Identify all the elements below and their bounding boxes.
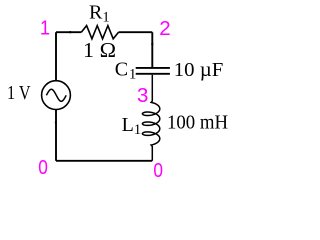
source V1 sine [46, 89, 66, 101]
junction dot on left wire [55, 122, 57, 124]
svg-text:2: 2 [159, 17, 170, 40]
svg-text:1 Ω: 1 Ω [83, 38, 116, 62]
svg-text:10 µF: 10 µF [174, 59, 224, 81]
svg-text:1: 1 [40, 16, 50, 39]
junction dot on right wire [151, 43, 153, 45]
wire left vertical lower [55, 110, 57, 161]
source V1 circle [42, 81, 71, 110]
svg-text:1 V: 1 V [7, 82, 31, 104]
svg-text:0: 0 [38, 156, 48, 179]
capacitor C1 [136, 68, 170, 74]
resistor R1 [81, 26, 118, 39]
junction dot on top wire [69, 31, 71, 33]
wire top left lead [56, 31, 81, 33]
wire bottom [56, 160, 152, 162]
svg-text:100 mH: 100 mH [167, 112, 228, 134]
svg-text:0: 0 [153, 159, 163, 182]
wire top right lead [119, 31, 153, 33]
svg-text:R1: R1 [89, 1, 110, 25]
wire left vertical upper [55, 32, 57, 80]
svg-text:L1: L1 [122, 114, 141, 138]
wire right vertical to capacitor [151, 32, 153, 67]
svg-text:3: 3 [137, 84, 148, 107]
inductor L1 [142, 75, 159, 161]
svg-text:C1: C1 [115, 58, 136, 82]
